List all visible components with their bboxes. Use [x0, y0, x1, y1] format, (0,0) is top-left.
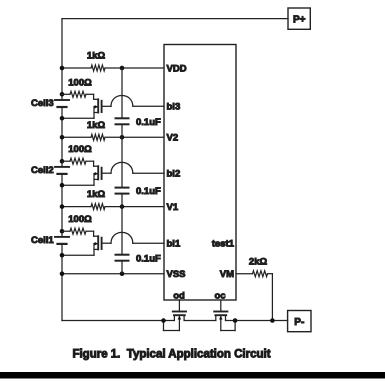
- node: junction on VDD line at filter-cap branch: [120, 66, 125, 71]
- svg-text:P-: P-: [294, 317, 304, 328]
- node: Q-oc source/body tie junction on rail: [233, 318, 238, 323]
- svg-text:100Ω: 100Ω: [68, 144, 92, 155]
- terminal P-: [288, 311, 311, 332]
- wire: V2 line from resistor to pin V2: [122, 136, 164, 138]
- wire: Cell2 negative return to bus: [62, 184, 94, 186]
- wire: Cell3 negative return to bus: [62, 117, 94, 119]
- capacitor 0.1uF (Cell2 filter): [116, 137, 129, 206]
- node: Cell3 positive terminal junction: [60, 92, 65, 97]
- svg-text:0.1uF: 0.1uF: [136, 186, 161, 197]
- wire: top bus from left rail to P+: [62, 18, 288, 20]
- svg-text:0.1uF: 0.1uF: [136, 117, 161, 128]
- svg-text:2kΩ: 2kΩ: [249, 256, 268, 267]
- node: Cell1 negative terminal junction: [60, 253, 65, 258]
- resistor 1k&#937; (V1 filter): [62, 204, 122, 210]
- svg-text:100Ω: 100Ω: [68, 214, 92, 225]
- capacitor 0.1uF (Cell3 filter): [116, 68, 129, 137]
- svg-text:test1: test1: [212, 239, 235, 250]
- terminal P+: [288, 8, 310, 29]
- resistor 100&#937; (Cell2 balance): [62, 158, 86, 164]
- node: Cell2 positive terminal junction: [60, 159, 65, 164]
- node: junction on V2 line at filter-cap branch: [120, 135, 125, 140]
- node: Q-od source/body tie junction on rail: [161, 318, 166, 323]
- node: Cell2 negative terminal junction: [60, 183, 65, 188]
- svg-text:1kΩ: 1kΩ: [87, 51, 106, 62]
- svg-text:Figure 1. Typical Application: Figure 1. Typical Application Circuit: [72, 348, 270, 360]
- battery cell Cell3: [55, 100, 69, 107]
- node: junction on bus at VSS line: [60, 271, 65, 276]
- node: junction on bus at V1 line: [60, 204, 65, 209]
- resistor 1k&#937; (V2 filter): [62, 134, 122, 140]
- node: junction on V1 line at filter-cap branch: [120, 204, 125, 209]
- capacitor 0.1uF (Cell1 filter): [116, 207, 129, 274]
- wire: V1 line from resistor to pin V1: [122, 206, 164, 208]
- svg-text:0.1uF: 0.1uF: [136, 253, 161, 264]
- svg-text:1kΩ: 1kΩ: [87, 120, 106, 131]
- svg-text:oc: oc: [214, 291, 225, 302]
- svg-text:V2: V2: [167, 133, 179, 144]
- node: junction on VSS line at filter-cap branch: [120, 271, 125, 276]
- battery cell Cell2: [55, 167, 69, 174]
- svg-text:P+: P+: [293, 14, 306, 25]
- resistor 2k&#937; (VM): [236, 271, 272, 277]
- svg-text:bl3: bl3: [167, 102, 181, 113]
- wire: 2k&#937; down to negative rail: [271, 274, 273, 321]
- resistor 100&#937; (Cell1 balance): [62, 228, 86, 234]
- power MOSFET Q-od (discharge control): [164, 300, 187, 331]
- node: Cell1 positive terminal junction: [60, 229, 65, 234]
- svg-text:VM: VM: [220, 269, 234, 280]
- node: Cell3 negative terminal junction: [60, 116, 65, 121]
- wire: VSS line from bus to pin VSS: [62, 273, 164, 275]
- wire: Cell1 negative return to bus: [62, 254, 94, 256]
- wire: gate lead to pin bl1 with hop over cap branch: [102, 232, 164, 243]
- svg-text:Cell2: Cell2: [31, 165, 54, 176]
- svg-text:1kΩ: 1kΩ: [87, 189, 106, 200]
- svg-text:bl2: bl2: [167, 169, 181, 180]
- resistor 1k&#937; (VDD filter): [62, 65, 122, 71]
- balancing MOSFET Q2 for Cell2: [86, 161, 102, 185]
- node: junction of 2k&#937; branch on rail: [270, 318, 275, 323]
- svg-text:V1: V1: [167, 202, 179, 213]
- node: junction on bus at VDD line: [60, 66, 65, 71]
- balancing MOSFET Q1 for Cell1: [86, 231, 102, 255]
- wire: gate lead to pin bl3 with hop over cap branch: [102, 96, 164, 107]
- balancing MOSFET Q3 for Cell3: [86, 94, 102, 118]
- wire: VDD line from resistor to pin VDD: [122, 67, 164, 69]
- power MOSFET Q-oc (charge control): [214, 300, 235, 331]
- svg-text:VDD: VDD: [167, 63, 187, 74]
- svg-text:100Ω: 100Ω: [68, 77, 92, 88]
- wire: gate lead to pin bl2 with hop over cap branch: [102, 162, 164, 173]
- svg-text:bl1: bl1: [167, 239, 181, 250]
- battery cell Cell1: [55, 237, 69, 244]
- footer rule bar: [0, 372, 385, 379]
- svg-text:Cell1: Cell1: [31, 235, 54, 246]
- op-amp/protection IC U1 body: [164, 45, 236, 301]
- svg-text:Cell3: Cell3: [31, 98, 54, 109]
- wire: bottom negative rail from bus to P- (broken under FETs): [62, 320, 288, 322]
- svg-text:VSS: VSS: [167, 269, 186, 280]
- wire: left vertical battery-stack bus (segmented by battery plates): [61, 19, 63, 321]
- resistor 100&#937; (Cell3 balance): [62, 91, 86, 97]
- node: junction on bus at V2 line: [60, 135, 65, 140]
